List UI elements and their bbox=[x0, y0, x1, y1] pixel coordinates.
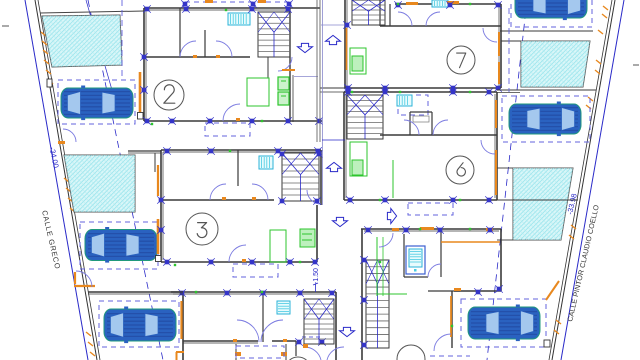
car V3 bbox=[104, 307, 176, 344]
unit3 kitchen bbox=[270, 229, 315, 262]
unit3 stairs bbox=[282, 153, 319, 201]
unit2 stairs bbox=[258, 12, 290, 57]
orange fence marks right boundary bbox=[554, 6, 608, 334]
right street line (blue) bbox=[561, 0, 624, 360]
unit6 kitchen bbox=[350, 142, 393, 198]
unit6 facade orange bbox=[495, 100, 497, 195]
unit5 top jambs bbox=[392, 227, 493, 231]
left site boundary bbox=[35, 0, 100, 360]
unit3 door jambs bbox=[222, 197, 256, 262]
car V6 bbox=[468, 305, 540, 342]
left street line (blue) bbox=[25, 0, 88, 360]
gate G1 boundary bbox=[58, 129, 76, 144]
unit4 stairs entry arc bbox=[303, 344, 344, 360]
small dash right edge bbox=[633, 64, 639, 66]
party wall stub gap row1 bbox=[320, 88, 345, 92]
unit6 radiator bbox=[397, 95, 412, 106]
parking space dashed G5 bbox=[502, 96, 590, 142]
jamb box G6 corner bbox=[544, 340, 550, 347]
pool P3 top-right bbox=[521, 41, 590, 87]
unit2 garage door orange bbox=[138, 72, 144, 119]
unit4 stairs bbox=[304, 299, 334, 344]
parking space dashed G1 bbox=[58, 80, 135, 124]
unit6 stairs bbox=[347, 95, 383, 139]
unit5 number circle partial bbox=[397, 345, 425, 360]
unit2 columns bbox=[140, 5, 323, 125]
pool3 connector stubs bbox=[501, 40, 521, 42]
gap blue horizontal u7 bbox=[321, 21, 351, 29]
unit2 interior partition H bbox=[144, 8, 268, 78]
unit7 facade orange bbox=[406, 1, 499, 84]
middle boundary blue line bbox=[317, 0, 323, 205]
unit2 number circle bbox=[154, 80, 184, 110]
unit4 radiator bbox=[277, 301, 290, 314]
unit7 number circle bbox=[447, 46, 475, 74]
unit5 upper arc bbox=[379, 233, 393, 247]
unit6 number circle bbox=[446, 156, 474, 184]
unit3 outer walls bbox=[161, 150, 321, 262]
unit7 outer walls bbox=[345, 0, 501, 88]
unit4 columns bbox=[178, 289, 336, 297]
unit4 facade orange bbox=[176, 301, 184, 360]
unit7 porch dashed bbox=[398, 95, 428, 115]
unit5 hall wall bbox=[428, 288, 461, 291]
plot wall above pool3 bbox=[500, 30, 593, 32]
unit4 number circle partial bbox=[285, 357, 311, 360]
unit5 shower bbox=[406, 246, 425, 274]
unit4 door jambs bbox=[0, 0, 1, 1]
unit5 entry arc bbox=[434, 334, 451, 351]
car V4 bbox=[515, 0, 587, 20]
gap dashed mid bbox=[322, 139, 345, 141]
unit3 interior partition H bbox=[161, 150, 274, 200]
unit4 porch sides bbox=[235, 344, 287, 360]
unit5 green L bbox=[377, 237, 407, 296]
unit5 bottom dashes bbox=[430, 355, 470, 357]
parking space dashed G3 bbox=[99, 301, 179, 347]
dim text 1.50 bbox=[313, 268, 320, 284]
unit2 kitchen bbox=[247, 77, 289, 106]
unit5 wall orange vertical bbox=[450, 296, 452, 337]
top porch dashed bbox=[181, 0, 293, 8]
garage rear wall row3 bbox=[88, 292, 183, 294]
text -33.98 bbox=[565, 193, 579, 216]
pool P4 right bbox=[513, 168, 573, 240]
unit6 porch dashed bbox=[408, 203, 453, 215]
right site boundary bbox=[549, 0, 615, 360]
unit7 stairs bbox=[352, 0, 385, 25]
text CALLE GRECO bbox=[40, 209, 62, 270]
unit7 entry arc bbox=[483, 28, 497, 42]
unit5 bathroom bbox=[404, 231, 441, 277]
unit5 columns bbox=[360, 226, 503, 349]
unit2 rear porch line bbox=[294, 76, 318, 78]
diagonal solid blue top-left bbox=[86, 0, 112, 90]
unit3 radiator bbox=[259, 156, 273, 169]
unit2 door jambs bbox=[193, 55, 240, 121]
unit3 door arcs bbox=[210, 184, 321, 262]
unit4 porch dashed bbox=[236, 346, 284, 358]
unit3 garage door orange bbox=[156, 219, 162, 262]
unit7 columns bbox=[344, 1, 502, 92]
site north edge bbox=[40, 11, 144, 13]
diagonal reference line left bbox=[88, 0, 163, 360]
green wall marks bbox=[151, 3, 471, 327]
pool P2 left bbox=[64, 155, 135, 212]
parking space dashed G6 bbox=[461, 299, 546, 347]
unit7 kitchen bbox=[350, 48, 366, 74]
unit4 outer walls bbox=[171, 292, 336, 360]
unit3 facade window orange bbox=[157, 165, 159, 196]
unit7 left wall orange bbox=[346, 28, 348, 70]
unit3 side plot wall bbox=[128, 151, 161, 172]
entry arrow A3 bbox=[327, 162, 342, 171]
jamb box G1 corner bbox=[47, 79, 52, 87]
pool4 connector stubs bbox=[497, 168, 513, 240]
unit5 orange shelf bbox=[441, 241, 500, 243]
car V1 bbox=[61, 86, 133, 121]
entry arrow A4 bbox=[333, 217, 348, 226]
unit6 partition bbox=[380, 112, 497, 135]
diagonal reference line right bbox=[487, 0, 527, 360]
pool P1 top-left bbox=[42, 15, 122, 67]
unit3 porch dashed bbox=[233, 264, 278, 277]
unit3 number circle bbox=[186, 213, 218, 245]
unit2 porch dashed bbox=[205, 123, 250, 136]
dashed line front of unit7 facade bbox=[508, 8, 510, 92]
entry arrow A1 bbox=[298, 43, 313, 52]
parking space dashed G2 bbox=[80, 222, 158, 269]
unit2 outer walls bbox=[144, 8, 322, 122]
dashed line pool1 right bbox=[121, 0, 123, 80]
entry arrow A2 bbox=[326, 35, 341, 44]
text CALLE PINTOR CLAUDIO COELLO bbox=[565, 204, 601, 323]
car V5 bbox=[509, 102, 581, 137]
parking space dashed G4 bbox=[511, 0, 592, 27]
small dash left edge bbox=[2, 25, 9, 27]
unit4 double door arcs bbox=[233, 320, 287, 342]
unit2 rear orange lintel bbox=[282, 69, 295, 71]
orange fence marks left boundary bbox=[41, 32, 95, 356]
entry arrow A6 bbox=[340, 327, 355, 336]
unit6 columns bbox=[344, 88, 493, 204]
unit2 radiator bbox=[228, 13, 250, 25]
unit6 wall stubs right bbox=[497, 90, 596, 200]
unit7 bedroom door arcs bbox=[398, 12, 440, 26]
unit6 entry arc bbox=[481, 140, 495, 154]
orange fence piece bottom right bbox=[546, 281, 559, 300]
svg-text:-1.50: -1.50 bbox=[313, 268, 320, 284]
unit7 partition bbox=[380, 0, 501, 26]
unit7 radiator top bbox=[432, 0, 448, 7]
car V2 bbox=[85, 227, 157, 263]
unit5 outer walls bbox=[361, 229, 501, 360]
unit5 stairs bbox=[366, 260, 389, 348]
unit3 columns bbox=[157, 147, 323, 266]
entry arrow A5 bbox=[387, 209, 396, 224]
unit4 interior bbox=[183, 294, 326, 356]
text -34.00 bbox=[48, 146, 61, 169]
unit6 outer walls bbox=[344, 92, 497, 200]
dim tick 1.50 bbox=[313, 283, 318, 292]
unit6 bedroom door arcs bbox=[404, 120, 448, 135]
gate arc left boundary bbox=[74, 271, 95, 287]
unit2 door arcs bbox=[180, 41, 292, 121]
